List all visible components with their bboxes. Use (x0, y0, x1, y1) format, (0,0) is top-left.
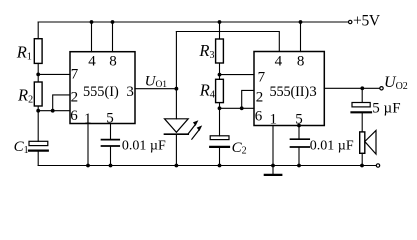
svg-text:+5V: +5V (353, 13, 381, 30)
svg-text:4: 4 (275, 54, 283, 70)
svg-text:555(II): 555(II) (270, 84, 310, 100)
svg-text:2: 2 (256, 90, 263, 106)
svg-text:5: 5 (295, 112, 303, 128)
svg-text:7: 7 (258, 70, 266, 86)
svg-text:8: 8 (297, 54, 305, 70)
svg-text:3: 3 (309, 84, 317, 100)
svg-text:C1: C1 (14, 139, 29, 156)
svg-text:C2: C2 (232, 140, 247, 157)
svg-text:6: 6 (255, 108, 263, 124)
svg-text:1: 1 (270, 112, 278, 128)
svg-text:0.01 µF: 0.01 µF (310, 138, 354, 153)
svg-text:R1: R1 (16, 43, 32, 63)
svg-text:6: 6 (70, 108, 78, 124)
svg-text:2: 2 (71, 90, 79, 106)
svg-text:5: 5 (106, 110, 114, 126)
svg-text:1: 1 (84, 111, 92, 127)
svg-text:UO1: UO1 (145, 73, 168, 90)
svg-text:UO2: UO2 (384, 74, 408, 92)
svg-text:R4: R4 (199, 81, 215, 101)
svg-text:4: 4 (88, 54, 96, 70)
svg-text:R3: R3 (198, 41, 214, 61)
svg-text:5 µF: 5 µF (372, 100, 400, 116)
svg-text:555(I): 555(I) (83, 84, 119, 100)
svg-text:R2: R2 (17, 86, 33, 106)
svg-text:0.01 µF: 0.01 µF (122, 139, 166, 154)
svg-text:7: 7 (71, 67, 79, 83)
svg-text:3: 3 (126, 84, 133, 100)
svg-text:8: 8 (109, 54, 117, 70)
